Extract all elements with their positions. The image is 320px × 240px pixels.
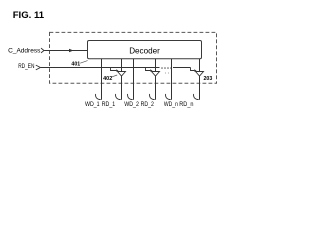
svg-text:FIG. 11: FIG. 11 (13, 10, 45, 21)
svg-text:RD_1: RD_1 (102, 101, 116, 108)
svg-text:C_Address: C_Address (8, 48, 40, 55)
svg-text:WD_n: WD_n (164, 101, 178, 108)
svg-text:401: 401 (71, 61, 80, 67)
svg-text:WD_1: WD_1 (85, 101, 100, 108)
svg-text:203: 203 (204, 76, 213, 82)
svg-text:402: 402 (103, 76, 113, 82)
svg-text:RD_n: RD_n (179, 101, 194, 108)
svg-text:RD_EN: RD_EN (18, 63, 34, 70)
svg-text:RD_2: RD_2 (141, 101, 155, 108)
svg-text:WD_2: WD_2 (124, 101, 139, 108)
svg-text:Decoder: Decoder (129, 46, 160, 55)
